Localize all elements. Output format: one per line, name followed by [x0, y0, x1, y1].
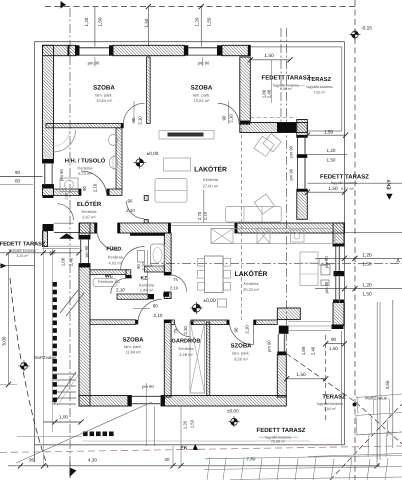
property boundary dashed right	[354, 0, 356, 480]
svg-text:±0,00: ±0,00	[203, 298, 216, 304]
door szoba1184 arc	[138, 300, 162, 324]
closet with X	[190, 321, 205, 393]
svg-text:2,10: 2,10	[126, 208, 135, 213]
window east dining 1	[338, 246, 340, 271]
wc washbasin	[93, 279, 117, 287]
svg-text:Kerámia 1,5: Kerámia 1,5	[98, 279, 120, 284]
svg-text:4,28 m²: 4,28 m²	[179, 352, 193, 357]
svg-text:6,07 m²: 6,07 m²	[341, 187, 355, 191]
cap szoba856 window	[277, 352, 286, 355]
svg-text:pm 90: pm 90	[88, 61, 100, 66]
cap szoba856	[254, 320, 257, 325]
partition H.H. south right	[107, 189, 122, 195]
wall east bump seg3	[333, 303, 344, 326]
svg-text:Kerámia: Kerámia	[78, 166, 94, 171]
cap west wall end	[43, 224, 54, 231]
svg-text:SZOBA: SZOBA	[123, 337, 145, 344]
svg-text:4,55: 4,55	[385, 380, 390, 389]
level marker terrace	[231, 418, 238, 425]
terrace inner edge lower right	[341, 331, 343, 445]
terrace posts row	[83, 432, 88, 437]
fence line 2	[379, 302, 381, 460]
cap east bump end	[332, 325, 344, 330]
partition szoba856 north e	[254, 320, 278, 325]
svg-text:4,02 m²: 4,02 m²	[109, 260, 123, 265]
svg-text:pm 90: pm 90	[59, 169, 64, 181]
black bit kz	[163, 293, 169, 297]
svg-text:2,10: 2,10	[170, 285, 179, 290]
door szoba1 arc	[123, 103, 144, 124]
svg-text:GARDRÓB: GARDRÓB	[172, 338, 201, 345]
partition kz south	[117, 294, 148, 299]
svg-text:pm 90: pm 90	[198, 61, 210, 66]
svg-text:1,50: 1,50	[362, 262, 372, 268]
dashed ext x325	[325, 335, 327, 420]
svg-text:ÉNY: ÉNY	[386, 179, 393, 190]
boundary point marker W	[21, 363, 28, 370]
section line vertical x281	[280, 28, 282, 125]
entrance triangle	[59, 233, 75, 239]
shower	[54, 130, 76, 152]
fence line 1	[376, 302, 378, 460]
door eloter east arc	[127, 201, 145, 219]
svg-text:H.H. / TUSOLÓ: H.H. / TUSOLÓ	[65, 157, 106, 165]
kitchen island	[300, 252, 318, 286]
svg-text:2,10: 2,10	[137, 116, 142, 125]
svg-text:30: 30	[165, 457, 170, 462]
dashed diagonal SE 3	[330, 404, 402, 480]
partition H.H. south	[54, 189, 82, 195]
cap gardrob wall	[164, 320, 171, 323]
svg-text:90: 90	[331, 337, 337, 342]
svg-text:FÜRD.: FÜRD.	[106, 245, 123, 252]
eave outline top	[35, 41, 345, 43]
wall gardrob west	[164, 320, 171, 397]
kitchen counter	[211, 229, 335, 244]
wall west upper	[43, 45, 54, 163]
cap west	[43, 159, 54, 163]
partition szoba1 south	[46, 123, 123, 127]
svg-text:25,31 m²: 25,31 m²	[243, 287, 259, 292]
cap wc east	[125, 275, 131, 278]
terrace inner edge right	[341, 47, 343, 131]
tv cabinet	[159, 131, 214, 140]
cap bath east	[164, 272, 171, 275]
eave outline right	[344, 42, 346, 445]
partition szoba1184 north	[90, 320, 136, 325]
partition H.H. east	[116, 128, 122, 189]
svg-text:90: 90	[153, 303, 159, 308]
svg-text:pm 90: pm 90	[324, 281, 329, 293]
bottom dims	[8, 465, 380, 467]
svg-text:FEDETT TARASZ: FEDETT TARASZ	[262, 75, 311, 82]
svg-text:TERASZ: TERASZ	[308, 76, 332, 83]
svg-text:2,97 m²: 2,97 m²	[82, 215, 96, 220]
wall north seg2	[113, 45, 184, 55]
svg-text:2,40: 2,40	[267, 89, 272, 98]
svg-text:SZOBA: SZOBA	[191, 85, 213, 92]
window east dining 2	[338, 276, 340, 302]
cap south	[127, 396, 131, 407]
svg-text:75: 75	[173, 277, 178, 282]
window east szoba856	[284, 334, 286, 352]
appliance X 1	[211, 229, 233, 244]
svg-text:1,20: 1,20	[362, 283, 372, 289]
svg-text:pm 90: pm 90	[267, 340, 272, 352]
svg-text:1,80: 1,80	[261, 89, 266, 98]
ext line y232	[345, 232, 402, 234]
wall east bump seg1	[333, 223, 344, 246]
section flag B top	[61, 1, 67, 9]
svg-text:90: 90	[234, 327, 239, 332]
svg-text:1,20: 1,20	[362, 252, 372, 258]
appliance X 2	[257, 229, 270, 244]
entrance door arc	[57, 204, 73, 220]
partition bath south	[145, 266, 165, 272]
svg-text:75,08 m²: 75,08 m²	[271, 440, 286, 444]
strike nook terrace sub	[320, 403, 341, 405]
svg-text:1,50: 1,50	[328, 186, 338, 192]
axis line x201.3	[200, 7, 202, 47]
bath washbasin unit	[151, 244, 165, 266]
armchair lower	[254, 194, 274, 214]
bath inner door arc	[121, 247, 145, 271]
svg-text:2,70: 2,70	[197, 211, 202, 220]
window west bathroom	[80, 239, 82, 264]
svg-text:7,80: 7,80	[247, 457, 256, 462]
partition eloter east bottom	[144, 220, 148, 224]
bath door leaf	[138, 251, 145, 263]
terrace south edge	[35, 444, 345, 446]
door szoba856 arc	[229, 321, 253, 345]
pillar black top-right	[277, 123, 296, 133]
svg-text:#toPZvalue: #toPZvalue	[365, 396, 388, 401]
sink	[291, 230, 305, 242]
svg-text:1,00: 1,00	[59, 415, 68, 420]
svg-text:SZOBA: SZOBA	[93, 85, 115, 92]
partition gardrob north e	[191, 320, 229, 325]
armchair upper	[254, 136, 274, 156]
cap long	[94, 223, 97, 233]
terrace nook bottom edge	[307, 130, 342, 132]
wall west lower seg2	[79, 264, 90, 407]
svg-text:2,40: 2,40	[311, 346, 316, 355]
svg-text:FEDETT TARASZ: FEDETT TARASZ	[0, 242, 46, 248]
svg-text:2,10: 2,10	[116, 287, 125, 292]
utility dashed line red	[0, 446, 402, 453]
svg-text:10,64 m²: 10,64 m²	[96, 98, 112, 103]
svg-text:1,50: 1,50	[207, 17, 212, 26]
section flag A left	[1, 263, 7, 268]
svg-text:2,40: 2,40	[68, 257, 73, 266]
cap gardrob	[191, 320, 194, 325]
svg-text:60: 60	[15, 179, 21, 184]
section line vertical x286	[286, 28, 288, 355]
strike terasz sub	[309, 86, 331, 88]
cap hh	[79, 189, 82, 195]
door szoba856 leaf	[253, 321, 255, 345]
ramp arrow	[60, 290, 78, 313]
entry terrace edge 1	[43, 245, 80, 247]
partition eloter east top	[144, 195, 148, 200]
wall bath east	[164, 233, 171, 275]
svg-text:8,56 m²: 8,56 m²	[234, 357, 248, 362]
svg-text:90: 90	[131, 117, 136, 122]
strike bottom terrace sub	[259, 436, 298, 438]
wall west strip below door	[43, 231, 48, 247]
svg-text:pm 90: pm 90	[288, 168, 293, 180]
svg-text:27,00 m²: 27,00 m²	[203, 183, 219, 188]
wall east szoba2	[240, 57, 251, 121]
svg-text:1,50: 1,50	[189, 419, 194, 428]
wall north seg1	[43, 45, 76, 55]
nook dashed bottom edge	[250, 117, 296, 119]
svg-text:90: 90	[128, 199, 133, 204]
window south szoba1184	[131, 403, 161, 405]
svg-text:Kerámia: Kerámia	[244, 281, 260, 286]
svg-text:2,10: 2,10	[183, 326, 188, 335]
survey dot	[353, 403, 357, 407]
A-line and dims right	[315, 257, 402, 259]
svg-text:LAKÓTÉR: LAKÓTÉR	[194, 164, 227, 173]
entrance door leaf	[54, 222, 74, 224]
svg-text:2,10: 2,10	[93, 183, 98, 192]
svg-text:SZOBA: SZOBA	[231, 343, 253, 350]
sill east bump	[334, 271, 345, 276]
svg-text:A: A	[396, 258, 400, 264]
dashed diagonal SE 2	[356, 402, 402, 444]
svg-text:6,72 m²: 6,72 m²	[78, 171, 92, 176]
partition between szobas	[147, 57, 151, 123]
svg-text:Kerámia: Kerámia	[82, 209, 98, 214]
svg-text:pm 90: pm 90	[84, 245, 89, 257]
svg-text:90: 90	[222, 115, 227, 120]
post line left	[52, 249, 54, 432]
axis line x148.4	[147, 7, 149, 47]
level marker living	[136, 159, 144, 167]
svg-text:1,20: 1,20	[327, 148, 336, 153]
svg-text:2,10: 2,10	[245, 325, 250, 334]
svg-text:lam. park.: lam. park.	[95, 93, 113, 98]
partition bath/wc	[90, 270, 126, 275]
boundary point marker NE	[352, 31, 359, 38]
eave outline left	[34, 42, 36, 462]
boundary dashed top	[45, 6, 355, 8]
door bathroom arc	[97, 230, 118, 251]
wall long seg3	[235, 223, 345, 233]
svg-text:pm 90: pm 90	[288, 145, 293, 157]
terrace edge line left	[43, 231, 45, 466]
cap north	[68, 45, 70, 55]
section line vertical x70	[69, 8, 71, 473]
partition gardrob north w	[171, 320, 174, 325]
svg-text:2,10: 2,10	[203, 211, 208, 220]
svg-text:60: 60	[50, 250, 55, 255]
diagonal path line	[16, 402, 152, 463]
wall west mid	[43, 185, 54, 196]
svg-text:1,00: 1,00	[60, 257, 65, 266]
hidden line x241	[241, 128, 243, 320]
cap bump	[333, 244, 344, 247]
svg-text:90: 90	[82, 186, 87, 191]
svg-text:7,02 m²: 7,02 m²	[313, 90, 326, 94]
door gardrob arc	[175, 321, 191, 337]
window jamb szoba856	[279, 326, 289, 334]
svg-text:95: 95	[29, 458, 35, 463]
sofa long bottom	[226, 206, 282, 222]
wall north seg3	[222, 45, 250, 55]
dining table	[205, 256, 224, 293]
terrace inner edge top-right	[250, 46, 341, 48]
door szoba2 arc	[218, 103, 239, 124]
window north szoba2	[188, 47, 217, 49]
terrace armchair	[263, 134, 281, 152]
door kz arc	[170, 275, 187, 292]
svg-text:±0,00: ±0,00	[147, 151, 159, 156]
door H.H. arc	[81, 171, 107, 194]
svg-text:-0,15: -0,15	[361, 26, 372, 32]
svg-text:±0,00: ±0,00	[227, 409, 239, 414]
dashed diagonal SE 1	[287, 354, 356, 403]
cap partition szoba1	[121, 123, 124, 127]
window east sitting 2	[304, 158, 306, 189]
partition wc east	[126, 270, 131, 276]
svg-text:1,50: 1,50	[362, 291, 372, 297]
beam over living opening	[171, 222, 235, 224]
drain rect	[218, 299, 227, 307]
svg-text:1,00: 1,00	[64, 193, 68, 200]
svg-text:1,20: 1,20	[182, 420, 187, 429]
section line horizontal A-A	[150, 262, 402, 264]
svg-text:Kerámia: Kerámia	[108, 254, 124, 259]
svg-text:1,50: 1,50	[264, 53, 274, 59]
svg-text:lam. park.: lam. park.	[193, 93, 211, 98]
svg-text:5,00: 5,00	[2, 336, 7, 345]
svg-text:1,20: 1,20	[84, 17, 89, 26]
entrance dims	[0, 252, 79, 254]
svg-text:ELŐTÉR: ELŐTÉR	[77, 200, 102, 208]
cap kz south	[148, 294, 154, 299]
svg-text:1,20: 1,20	[195, 17, 200, 26]
svg-text:FEDETT TARASZ: FEDETT TARASZ	[320, 173, 369, 180]
svg-text:#toPZvalue: #toPZvalue	[34, 355, 57, 360]
svg-text:90: 90	[15, 170, 21, 175]
svg-text:1,50: 1,50	[329, 346, 338, 351]
washing machine	[60, 178, 78, 192]
svg-text:1,50: 1,50	[327, 157, 336, 162]
svg-text:lam. park.: lam. park.	[232, 351, 250, 356]
svg-text:3,15 m²: 3,15 m²	[16, 254, 29, 258]
svg-text:FEDETT TARASZ: FEDETT TARASZ	[257, 427, 306, 434]
svg-text:2,10: 2,10	[141, 262, 146, 271]
svg-text:1,50: 1,50	[296, 372, 306, 378]
section flag B bottom	[70, 468, 77, 478]
svg-text:11,84 m²: 11,84 m²	[125, 350, 141, 355]
wall nook south	[240, 123, 307, 133]
svg-text:LAKÓTÉR: LAKÓTÉR	[235, 269, 268, 278]
svg-text:1,49 m²: 1,49 m²	[140, 288, 154, 293]
sofa left	[155, 179, 187, 203]
wall kz east lower	[164, 292, 171, 299]
cap szoba1184 north	[136, 320, 139, 325]
svg-text:fagyálló kerámia: fagyálló kerámia	[317, 402, 343, 406]
svg-text:lam. park.: lam. park.	[124, 344, 142, 349]
coffee table	[164, 158, 191, 171]
bath door dim line	[147, 250, 149, 299]
hh toilet	[109, 157, 117, 169]
svg-text:Kerámia: Kerámia	[203, 177, 219, 182]
svg-text:pm 90: pm 90	[324, 256, 329, 268]
window north szoba1	[80, 47, 110, 49]
svg-text:2,10: 2,10	[154, 313, 163, 318]
svg-text:2,10: 2,10	[229, 114, 234, 123]
hh washbasin	[109, 135, 118, 146]
axis line x94.9	[94, 7, 96, 47]
window west H.H.	[44, 163, 46, 185]
window east sitting 1	[304, 137, 306, 154]
svg-text:75: 75	[173, 328, 178, 333]
door wc arc	[111, 278, 127, 294]
towel radiator	[130, 233, 165, 236]
terrace posts column	[52, 282, 57, 287]
wall east szoba856	[277, 355, 286, 397]
wall south seg2	[161, 396, 286, 407]
svg-text:fagyálló kerámia: fagyálló kerámia	[331, 181, 357, 185]
svg-text:1,50: 1,50	[144, 18, 149, 27]
wall east sitting seg1	[297, 120, 308, 138]
terrace bottom edge left	[17, 436, 82, 438]
boundary curve bottom left	[10, 278, 48, 468]
svg-text:10,64 m²: 10,64 m²	[194, 98, 210, 103]
entry terrace edge 2	[43, 248, 80, 250]
svg-text:4,30: 4,30	[88, 458, 97, 463]
strike fedett sub	[276, 84, 305, 86]
svg-text:Kerámia: Kerámia	[179, 346, 195, 351]
level marker dining	[192, 304, 200, 312]
stairs treads	[53, 373, 77, 375]
svg-text:pm 90: pm 90	[142, 384, 154, 389]
stairs diagonal	[54, 372, 76, 404]
wall long seg1	[80, 223, 97, 233]
cap szoba2 wall	[240, 121, 251, 125]
paving stones	[204, 394, 402, 480]
terrace slab edge bottom	[82, 440, 310, 442]
wall west lower seg1	[79, 223, 90, 239]
wall south seg1	[79, 396, 131, 407]
wall east sitting seg2	[297, 189, 308, 219]
strike left terrace sub	[8, 248, 38, 250]
svg-text:ÉK: ÉK	[181, 445, 188, 452]
terrace nook step lines	[288, 321, 331, 323]
sill east sitting	[297, 154, 308, 158]
wall dining south piece	[277, 308, 300, 320]
wall long seg2	[118, 223, 171, 233]
svg-text:1,50: 1,50	[98, 17, 103, 26]
partition gardrob east	[207, 322, 210, 396]
cap west lower	[79, 235, 90, 239]
svg-text:1,89: 1,89	[301, 346, 306, 355]
svg-text:4,98 m²: 4,98 m²	[280, 87, 293, 91]
svg-text:1,50: 1,50	[324, 130, 334, 136]
